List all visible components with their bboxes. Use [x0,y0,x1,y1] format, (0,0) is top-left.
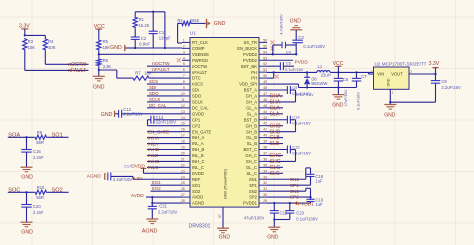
node R6 foot [98,69,100,71]
wire C20 stem [26,207,28,222]
svg-text:22: 22 [181,163,185,167]
svg-text:DRV8301: DRV8301 [189,224,211,230]
svg-text:56R: 56R [36,140,44,145]
svg-text:GL_C: GL_C [246,165,257,170]
svg-text:R1: R1 [139,17,145,22]
svg-text:34: 34 [263,169,267,173]
wire R3 to nFAULT [24,51,26,71]
ground C16 [21,166,33,168]
svg-text:10: 10 [181,92,185,96]
wire AVDD down [151,197,153,206]
svg-text:35: 35 [263,163,267,167]
capacitor C23 [285,210,294,212]
capacitor C22 [270,210,279,212]
svg-text:PWRGD: PWRGD [192,58,208,63]
wire U2 gnd stem [389,89,391,102]
wire INLA pin18 [147,143,182,145]
svg-text:COMP: COMP [192,46,205,51]
ground AGND [146,218,158,220]
wire SN1 [267,178,306,180]
svg-text:PVDD2: PVDD2 [243,52,258,57]
svg-text:24: 24 [181,175,185,179]
svg-text:BST_B: BST_B [244,117,257,122]
svg-text:PH: PH [251,76,257,81]
capacitor C1 [149,30,158,32]
wire SN2 [267,190,306,192]
svg-text:SN2: SN2 [249,189,258,194]
ground below R6 [93,75,105,77]
node 3.3V junction [24,34,26,36]
node C7 tap [355,71,357,73]
capacitor C16 [26,137,28,149]
inductor L1 [317,71,320,73]
capacitor C20 [26,192,28,204]
svg-text:49: 49 [263,80,267,84]
node VOUT [434,73,436,75]
svg-text:0.1uF/16V: 0.1uF/16V [356,92,361,110]
svg-text:19: 19 [181,146,185,150]
svg-text:SLA: SLA [270,111,280,117]
wire L1 to VCC node [330,71,373,73]
node C1 top [152,11,154,13]
capacitor C2 [131,36,140,38]
svg-text:2.2uF/16V: 2.2uF/16V [113,177,133,182]
svg-text:120pF: 120pF [159,35,171,40]
svg-text:48: 48 [263,86,267,90]
resistor R6 [97,58,101,66]
svg-text:SP1: SP1 [249,183,258,188]
svg-text:SN1: SN1 [290,177,300,183]
svg-text:AVDD: AVDD [192,195,203,200]
svg-text:C8: C8 [441,79,447,84]
wire BST_BK pin52 [267,65,280,67]
resistor R1 [133,17,137,29]
wire comp riser [164,12,166,48]
svg-text:C15: C15 [292,144,300,149]
wire SO1 pin25 [151,184,183,186]
svg-text:9: 9 [183,86,185,90]
svg-text:3: 3 [183,50,185,54]
svg-text:GH_A: GH_A [246,94,258,99]
svg-text:11: 11 [181,98,185,102]
svg-text:nOCTW: nOCTW [68,62,86,68]
svg-text:8: 8 [183,80,185,84]
wire VSENSE to pin3 [99,53,182,55]
svg-text:INLB: INLB [148,153,158,158]
wire R6 node to R7 [99,69,117,71]
svg-text:PVDD2: PVDD2 [243,58,258,63]
wire cap row A [273,44,282,46]
wire DC_CAL pin12 [147,107,182,109]
svg-text:GND: GND [101,112,113,118]
svg-text:SH_B: SH_B [246,129,257,134]
capacitor C14 [286,116,288,124]
svg-text:4: 4 [183,56,185,60]
wire SCS pin8 [147,83,182,85]
svg-text:13: 13 [181,110,185,114]
no-connect pin4 PWRGD [177,58,181,62]
svg-text:54: 54 [263,50,267,54]
capacitor C7 [356,72,358,78]
svg-text:R6: R6 [103,58,109,63]
svg-text:SL_A: SL_A [247,111,257,116]
svg-text:43: 43 [263,116,267,120]
wire SL_C [267,172,283,174]
svg-text:SO1: SO1 [52,132,63,138]
wire R10 out [47,191,68,193]
wire C1 stems [152,12,154,31]
capacitor C18 [307,173,315,175]
wire R4 to nOCTW [44,51,46,65]
svg-text:205K: 205K [190,18,200,23]
node U2 gnd [389,101,391,103]
node D6 tap [306,71,308,73]
wire SP1 [267,184,311,186]
wire SL_B [267,143,283,145]
svg-text:C16: C16 [33,149,41,154]
svg-text:15: 15 [181,122,185,126]
svg-text:INL_A: INL_A [192,141,204,146]
svg-text:42: 42 [263,122,267,126]
wire 3.3V to R4 [25,34,46,36]
svg-text:23: 23 [181,169,185,173]
svg-text:SDI: SDI [149,85,156,90]
svg-text:18K: 18K [103,45,111,50]
svg-text:SH_A: SH_A [246,100,257,105]
svg-text:SDO: SDO [149,91,159,96]
wire INHB pin19 [147,149,182,151]
capacitor C5 [279,62,281,70]
svg-text:22nF/100V: 22nF/100V [156,120,177,125]
svg-text:3.3K: 3.3K [103,64,112,69]
svg-text:R5: R5 [103,39,109,44]
wire SH_A [267,101,296,103]
svg-text:DC_CAL: DC_CAL [149,103,167,108]
svg-text:47uF/16V: 47uF/16V [343,89,348,106]
svg-text:GND: GND [21,230,33,236]
svg-text:50: 50 [263,74,267,78]
svg-text:R7: R7 [135,71,141,76]
svg-text:CP2: CP2 [192,123,201,128]
svg-text:37: 37 [263,151,267,155]
svg-text:SCS: SCS [149,79,158,84]
svg-text:GH_B: GH_B [246,123,258,128]
svg-text:12: 12 [181,104,185,108]
wire SO2 pin26 [151,190,183,192]
svg-text:GND (PowerPAD): GND (PowerPAD) [224,168,228,199]
svg-text:2.2uF/16V: 2.2uF/16V [441,85,461,90]
wire R6 bottom [98,66,100,76]
node SOA tap [25,136,27,138]
wire BST_C [267,149,287,151]
wire EN_GATE pin16 [147,131,182,133]
svg-text:47uF/100V: 47uF/100V [244,216,265,221]
svg-text:GND: GND [387,78,391,86]
svg-text:nOCTW: nOCTW [192,64,207,69]
svg-text:SP1: SP1 [290,183,299,189]
svg-text:PVDD1: PVDD1 [298,201,314,207]
svg-text:40: 40 [263,134,267,138]
wire DVDD to pin23 [144,172,183,174]
svg-text:C14: C14 [292,115,300,120]
svg-text:GL_A: GL_A [246,105,257,110]
svg-text:INLC: INLC [148,165,159,170]
svg-text:57: 57 [218,214,222,218]
wire PH pin50 [267,77,274,79]
svg-text:16: 16 [181,128,185,132]
svg-text:53: 53 [263,56,267,60]
node VCC tap [337,71,339,73]
wire SCLK pin11 [147,101,182,103]
wire caps to gnd [273,213,275,219]
svg-text:GND: GND [214,21,226,27]
capacitor C6 [337,72,339,78]
svg-text:SN1: SN1 [249,177,258,182]
resistor R2 [178,22,181,24]
svg-text:L1: L1 [318,64,323,69]
svg-text:AVDD: AVDD [131,193,145,199]
svg-text:nFAULT: nFAULT [68,68,86,74]
svg-text:C9: C9 [292,85,298,90]
svg-text:28: 28 [181,199,185,203]
capacitor C8 [435,74,437,81]
wire U2 vin stub [369,73,374,75]
svg-text:INHB: INHB [148,147,159,152]
svg-text:SO1: SO1 [192,183,201,188]
svg-text:51: 51 [263,68,267,72]
svg-text:SLC: SLC [270,171,280,177]
svg-text:SP2: SP2 [249,195,258,200]
svg-text:AGND: AGND [192,201,204,206]
svg-text:SL_C: SL_C [247,171,257,176]
svg-text:56R: 56R [36,195,44,200]
wire PVDD1 [267,202,311,204]
svg-text:BST_C: BST_C [244,147,258,152]
wire R7 to DTC pin7 [150,77,182,79]
svg-text:EN_BUCK: EN_BUCK [237,46,257,51]
svg-text:CP1: CP1 [192,117,201,122]
svg-text:14: 14 [181,116,185,120]
node riser foot [164,47,166,49]
svg-text:U2: U2 [375,62,381,67]
diode D6 B5819W [306,72,308,77]
svg-text:46: 46 [263,98,267,102]
node PVDD1 b [289,202,291,204]
svg-text:0.1uF/16V: 0.1uF/16V [285,67,304,72]
svg-text:INL_B: INL_B [192,153,204,158]
svg-text:INH_C: INH_C [192,159,205,164]
svg-text:PVDD1: PVDD1 [243,201,258,206]
svg-text:U1: U1 [190,31,196,36]
resistor R4 [43,38,47,51]
svg-text:6.8nF: 6.8nF [139,42,150,47]
wire GH_A [267,95,283,97]
wire SDO pin10 [147,95,182,97]
resistor R9 [34,135,47,139]
svg-text:R3: R3 [28,39,34,44]
no-connect pin55 [271,46,275,50]
wire comp top [135,11,165,13]
wire BST_A [267,89,287,91]
svg-text:0.1uF/100V: 0.1uF/100V [303,44,325,49]
wire SL_A [267,113,283,115]
svg-text:36: 36 [263,157,267,161]
svg-text:R2: R2 [177,18,183,23]
svg-text:SP2: SP2 [290,195,299,201]
node AVDD junction [151,196,153,198]
ground U2 [389,102,391,104]
capacitor C13 [150,116,152,124]
wire PVDD2 bus [267,53,296,55]
svg-text:R10: R10 [37,185,45,190]
port GND at R2 [206,19,208,28]
svg-text:44: 44 [263,110,267,114]
svg-text:AGND: AGND [87,174,101,180]
node PVDD2 riser1 [272,53,274,55]
svg-text:SDI: SDI [192,88,199,93]
svg-text:2.2nF: 2.2nF [33,155,44,160]
svg-text:DTC: DTC [192,76,201,81]
wire C22 riser [273,203,275,211]
capacitor C12 [118,110,120,118]
node PH join [273,71,275,73]
wire AVDD to pin27 [146,196,182,198]
svg-text:SCLK: SCLK [149,97,161,102]
svg-text:INHC: INHC [148,159,160,164]
svg-text:C4: C4 [286,50,292,55]
capacitor C15 [286,146,288,154]
node PVDD1 a [273,202,275,204]
svg-text:33: 33 [263,175,267,179]
svg-text:GND: GND [332,102,344,108]
svg-text:SL_B: SL_B [247,141,257,146]
svg-text:BST_BK: BST_BK [241,64,257,69]
svg-text:SO2: SO2 [152,186,162,191]
wire GL_B [267,137,283,139]
wire GH_B [267,125,283,127]
wire C17 to REF [111,175,133,177]
svg-text:INH_A: INH_A [192,135,205,140]
wire R4 drop [44,35,46,38]
svg-text:47: 47 [263,92,267,96]
wire R2 to gnd port [192,22,206,24]
svg-text:nFAULT: nFAULT [152,67,170,73]
svg-text:GND: GND [384,112,396,118]
wire AGND pin28 [152,202,182,204]
svg-text:SO1: SO1 [152,180,162,185]
svg-text:SO2: SO2 [192,189,201,194]
svg-text:27: 27 [181,193,185,197]
wire INHA pin17 [147,137,182,139]
svg-text:C6: C6 [343,77,349,82]
wire R1 top [134,12,136,17]
op-amp U1 gate-driver IC DRV8301 body with pins [190,38,259,208]
svg-text:25: 25 [181,181,185,185]
svg-text:2: 2 [183,44,185,48]
svg-text:10K: 10K [28,45,36,50]
svg-text:C20: C20 [33,204,41,209]
wire comp bottom [135,47,182,49]
svg-text:INHA: INHA [148,135,160,140]
svg-text:GH_C: GH_C [245,153,257,158]
resistor R3 [23,38,27,51]
svg-text:55: 55 [263,44,267,48]
wire gnd port to C2 [126,47,136,49]
svg-text:R9: R9 [37,130,43,135]
svg-text:VDD_SPI: VDD_SPI [239,82,257,87]
svg-text:2.2nF: 2.2nF [33,210,44,215]
svg-text:nFAULT: nFAULT [192,70,207,75]
svg-text:17: 17 [181,134,185,138]
svg-text:GND: GND [110,45,122,51]
node AGND pin28 junction [151,202,153,204]
wire VDD_SPI pin49 [267,83,299,85]
capacitor C21 [148,205,157,207]
wire SOA [8,136,35,138]
capacitor C9 [286,86,288,94]
svg-text:GND: GND [93,85,105,91]
svg-text:16.2K: 16.2K [139,23,150,28]
svg-text:EN_GATE: EN_GATE [148,129,169,134]
svg-text:41: 41 [263,128,267,132]
wire PH pin51 to L1 [267,71,317,73]
svg-text:nOCTW: nOCTW [152,61,170,67]
svg-text:DVDD: DVDD [192,171,204,176]
svg-text:0.1uF/100V: 0.1uF/100V [296,216,318,221]
svg-text:GND: GND [290,18,302,24]
wire SP2 [267,196,311,198]
svg-text:C7: C7 [361,74,367,79]
capacitor C4 [281,42,283,49]
wire R9 out [47,136,68,138]
wire C13 to CP1 pin14 [154,119,182,121]
svg-text:C21: C21 [159,204,167,209]
regulator U2 MCP1700T [374,67,410,89]
wire gnd bus right [390,101,435,103]
no-connect pin56 [271,40,275,44]
wire nFAULT pin6 [147,71,182,73]
wire pin57 [222,207,224,228]
svg-text:BST_A: BST_A [244,88,257,93]
svg-text:10K: 10K [48,45,56,50]
resistor R10 [34,190,47,194]
svg-text:18K: 18K [144,71,152,76]
svg-text:26: 26 [181,187,185,191]
svg-text:21: 21 [181,157,185,161]
svg-text:6: 6 [183,68,185,72]
svg-text:C23: C23 [296,211,304,216]
svg-text:INLA: INLA [148,141,159,146]
svg-text:SH_C: SH_C [246,159,257,164]
svg-text:1uF: 1uF [315,202,323,207]
wire INLB pin20 [147,154,182,156]
wire SDI pin9 [147,89,182,91]
svg-text:38: 38 [263,146,267,150]
svg-text:32: 32 [263,181,267,185]
wire PVDD2 pin53 [267,59,293,61]
no-connect pin49 area [275,75,279,79]
svg-text:VSENSE: VSENSE [192,52,209,57]
wire C21 stem [151,209,153,219]
wire C16 stem [26,152,28,167]
wire INLC pin22 [147,166,182,168]
svg-text:30: 30 [263,193,267,197]
capacitor C3 [292,39,303,41]
svg-text:56: 56 [263,38,267,42]
svg-text:29: 29 [263,199,267,203]
svg-text:3.3V: 3.3V [429,61,440,67]
power flag PVDD1 [294,201,297,205]
